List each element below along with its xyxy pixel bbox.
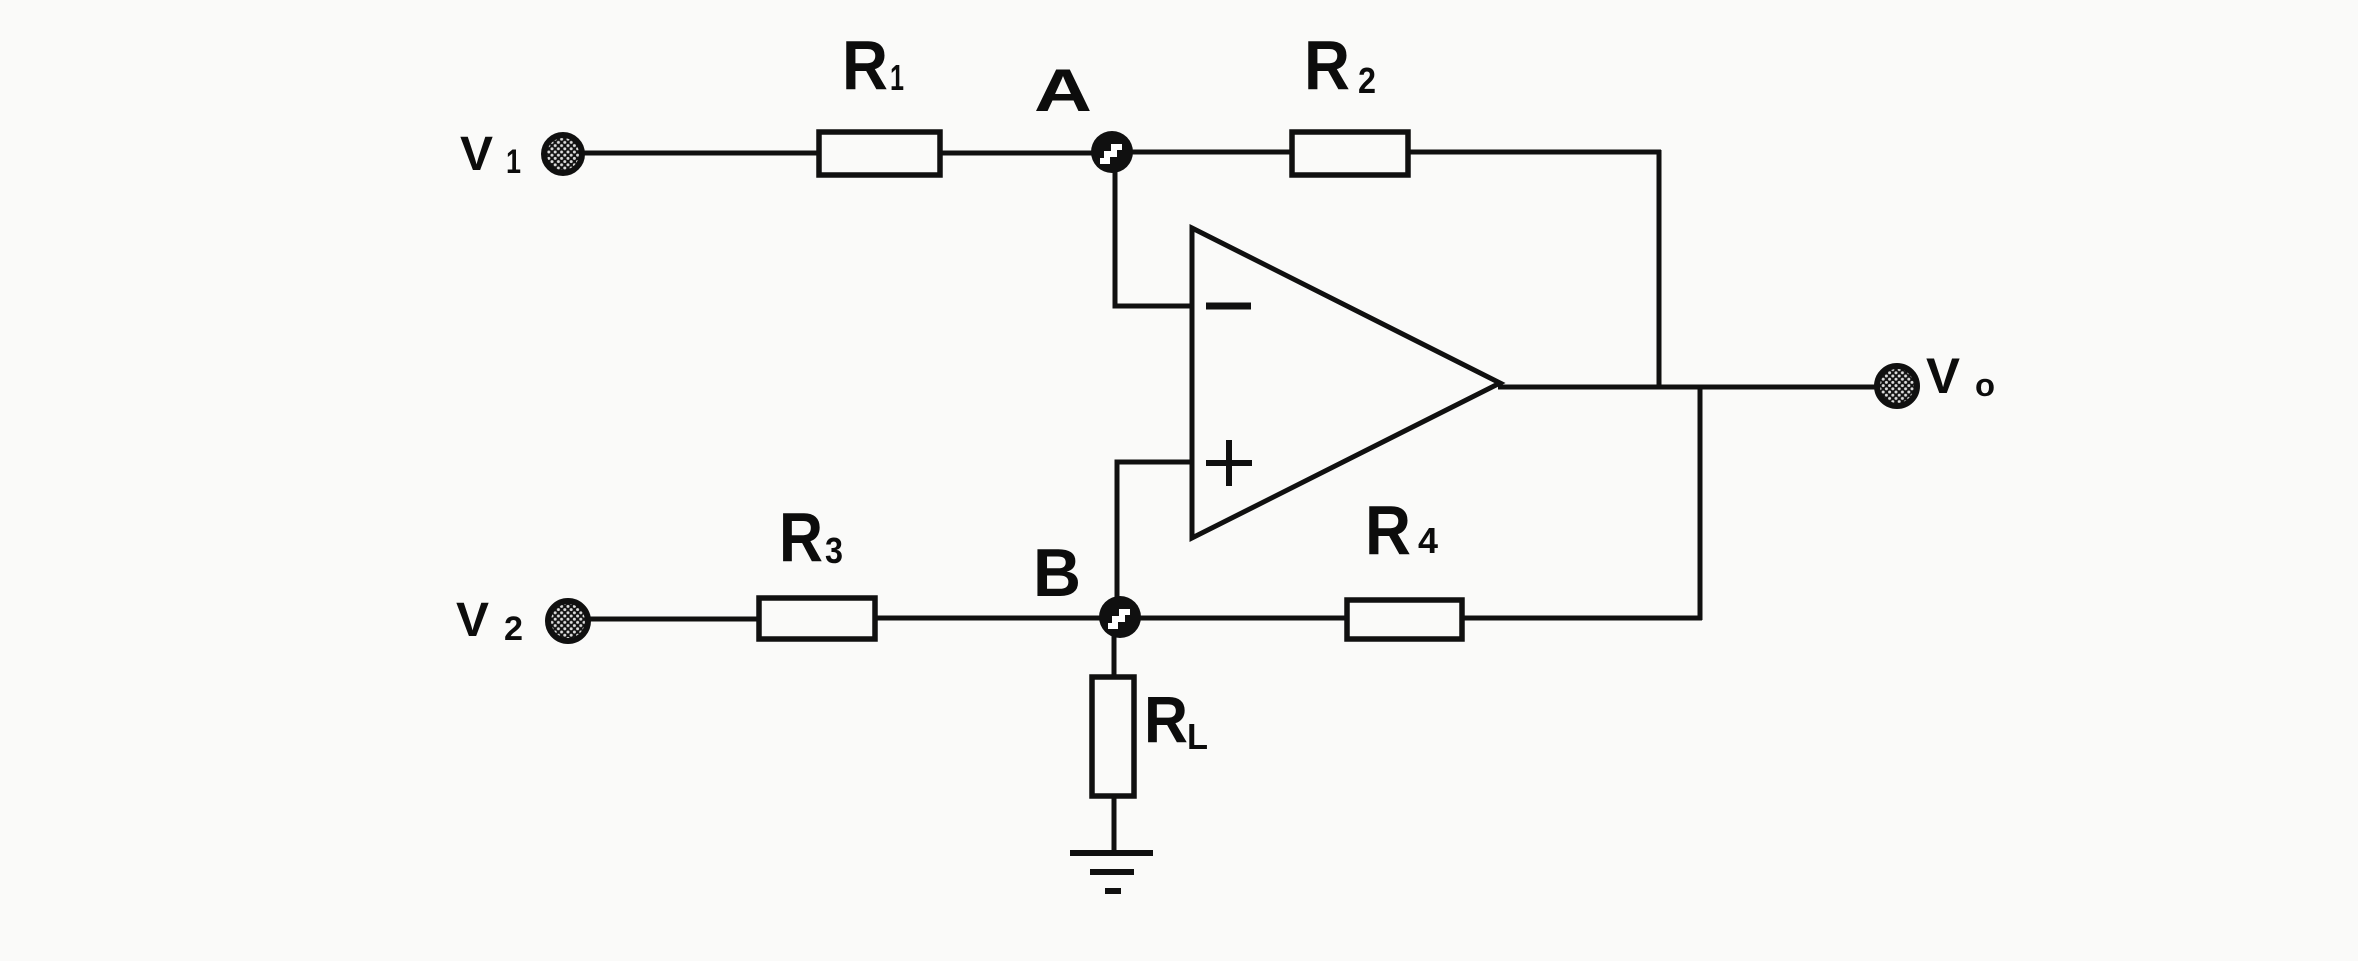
- label V2: [456, 594, 523, 648]
- label A: [1034, 57, 1092, 124]
- wire node A to R2: [1131, 150, 1292, 155]
- terminal V1: [544, 135, 582, 173]
- svg-text:V: V: [1926, 348, 1961, 404]
- svg-text:L: L: [1187, 716, 1208, 757]
- terminal V2: [548, 601, 588, 641]
- op-amp plus sign: [1206, 440, 1252, 486]
- label B: [1033, 535, 1081, 611]
- wire node B up to noninverting input: [1117, 462, 1192, 598]
- node B: [1099, 596, 1141, 638]
- label R3: [779, 498, 843, 576]
- svg-text:A: A: [1034, 57, 1092, 124]
- svg-text:V: V: [456, 594, 489, 647]
- label Vo: [1926, 348, 1995, 404]
- svg-text:R: R: [1365, 491, 1411, 569]
- label R2: [1304, 26, 1376, 104]
- svg-text:V: V: [460, 128, 493, 181]
- wire R3 to node B: [875, 616, 1101, 621]
- wire output: [1498, 385, 1878, 390]
- wire R4 to output corner: [1462, 616, 1702, 621]
- wire corner down to output line: [1657, 150, 1662, 389]
- wire V2 to R3: [588, 617, 759, 622]
- ground: [1070, 853, 1153, 891]
- wire node B to R4: [1140, 616, 1347, 621]
- resistor R2: [1292, 132, 1408, 175]
- svg-text:R: R: [1144, 682, 1188, 756]
- label R1: [842, 26, 904, 104]
- label R4: [1365, 491, 1438, 569]
- resistor RL: [1092, 677, 1134, 796]
- wire RL to ground: [1112, 796, 1117, 854]
- svg-text:R: R: [842, 26, 888, 104]
- terminal Vo: [1877, 366, 1917, 406]
- resistor R4: [1347, 600, 1462, 639]
- op-amp minus sign: [1206, 303, 1251, 310]
- svg-text:B: B: [1033, 535, 1081, 611]
- wire output down to R4 corner: [1698, 385, 1703, 620]
- label RL: [1144, 682, 1208, 757]
- svg-text:2: 2: [1358, 60, 1376, 101]
- svg-text:1: 1: [890, 57, 904, 98]
- svg-text:3: 3: [825, 530, 843, 571]
- resistor R1: [819, 132, 940, 175]
- svg-text:o: o: [1975, 367, 1995, 403]
- wire node B down to RL: [1112, 636, 1117, 680]
- label V1: [460, 128, 521, 181]
- svg-text:R: R: [779, 498, 823, 576]
- resistor R3: [759, 598, 875, 639]
- wire R1 to node A: [940, 151, 1094, 156]
- wire node A down to inverting input: [1115, 170, 1192, 306]
- svg-text:R: R: [1304, 26, 1350, 104]
- svg-text:1: 1: [506, 143, 521, 181]
- svg-text:2: 2: [504, 610, 523, 648]
- wire R2 to right corner: [1408, 150, 1661, 155]
- wire V1 to R1: [582, 151, 819, 156]
- node A: [1091, 131, 1133, 173]
- svg-text:4: 4: [1418, 520, 1438, 561]
- op-amp U1: [1192, 228, 1500, 538]
